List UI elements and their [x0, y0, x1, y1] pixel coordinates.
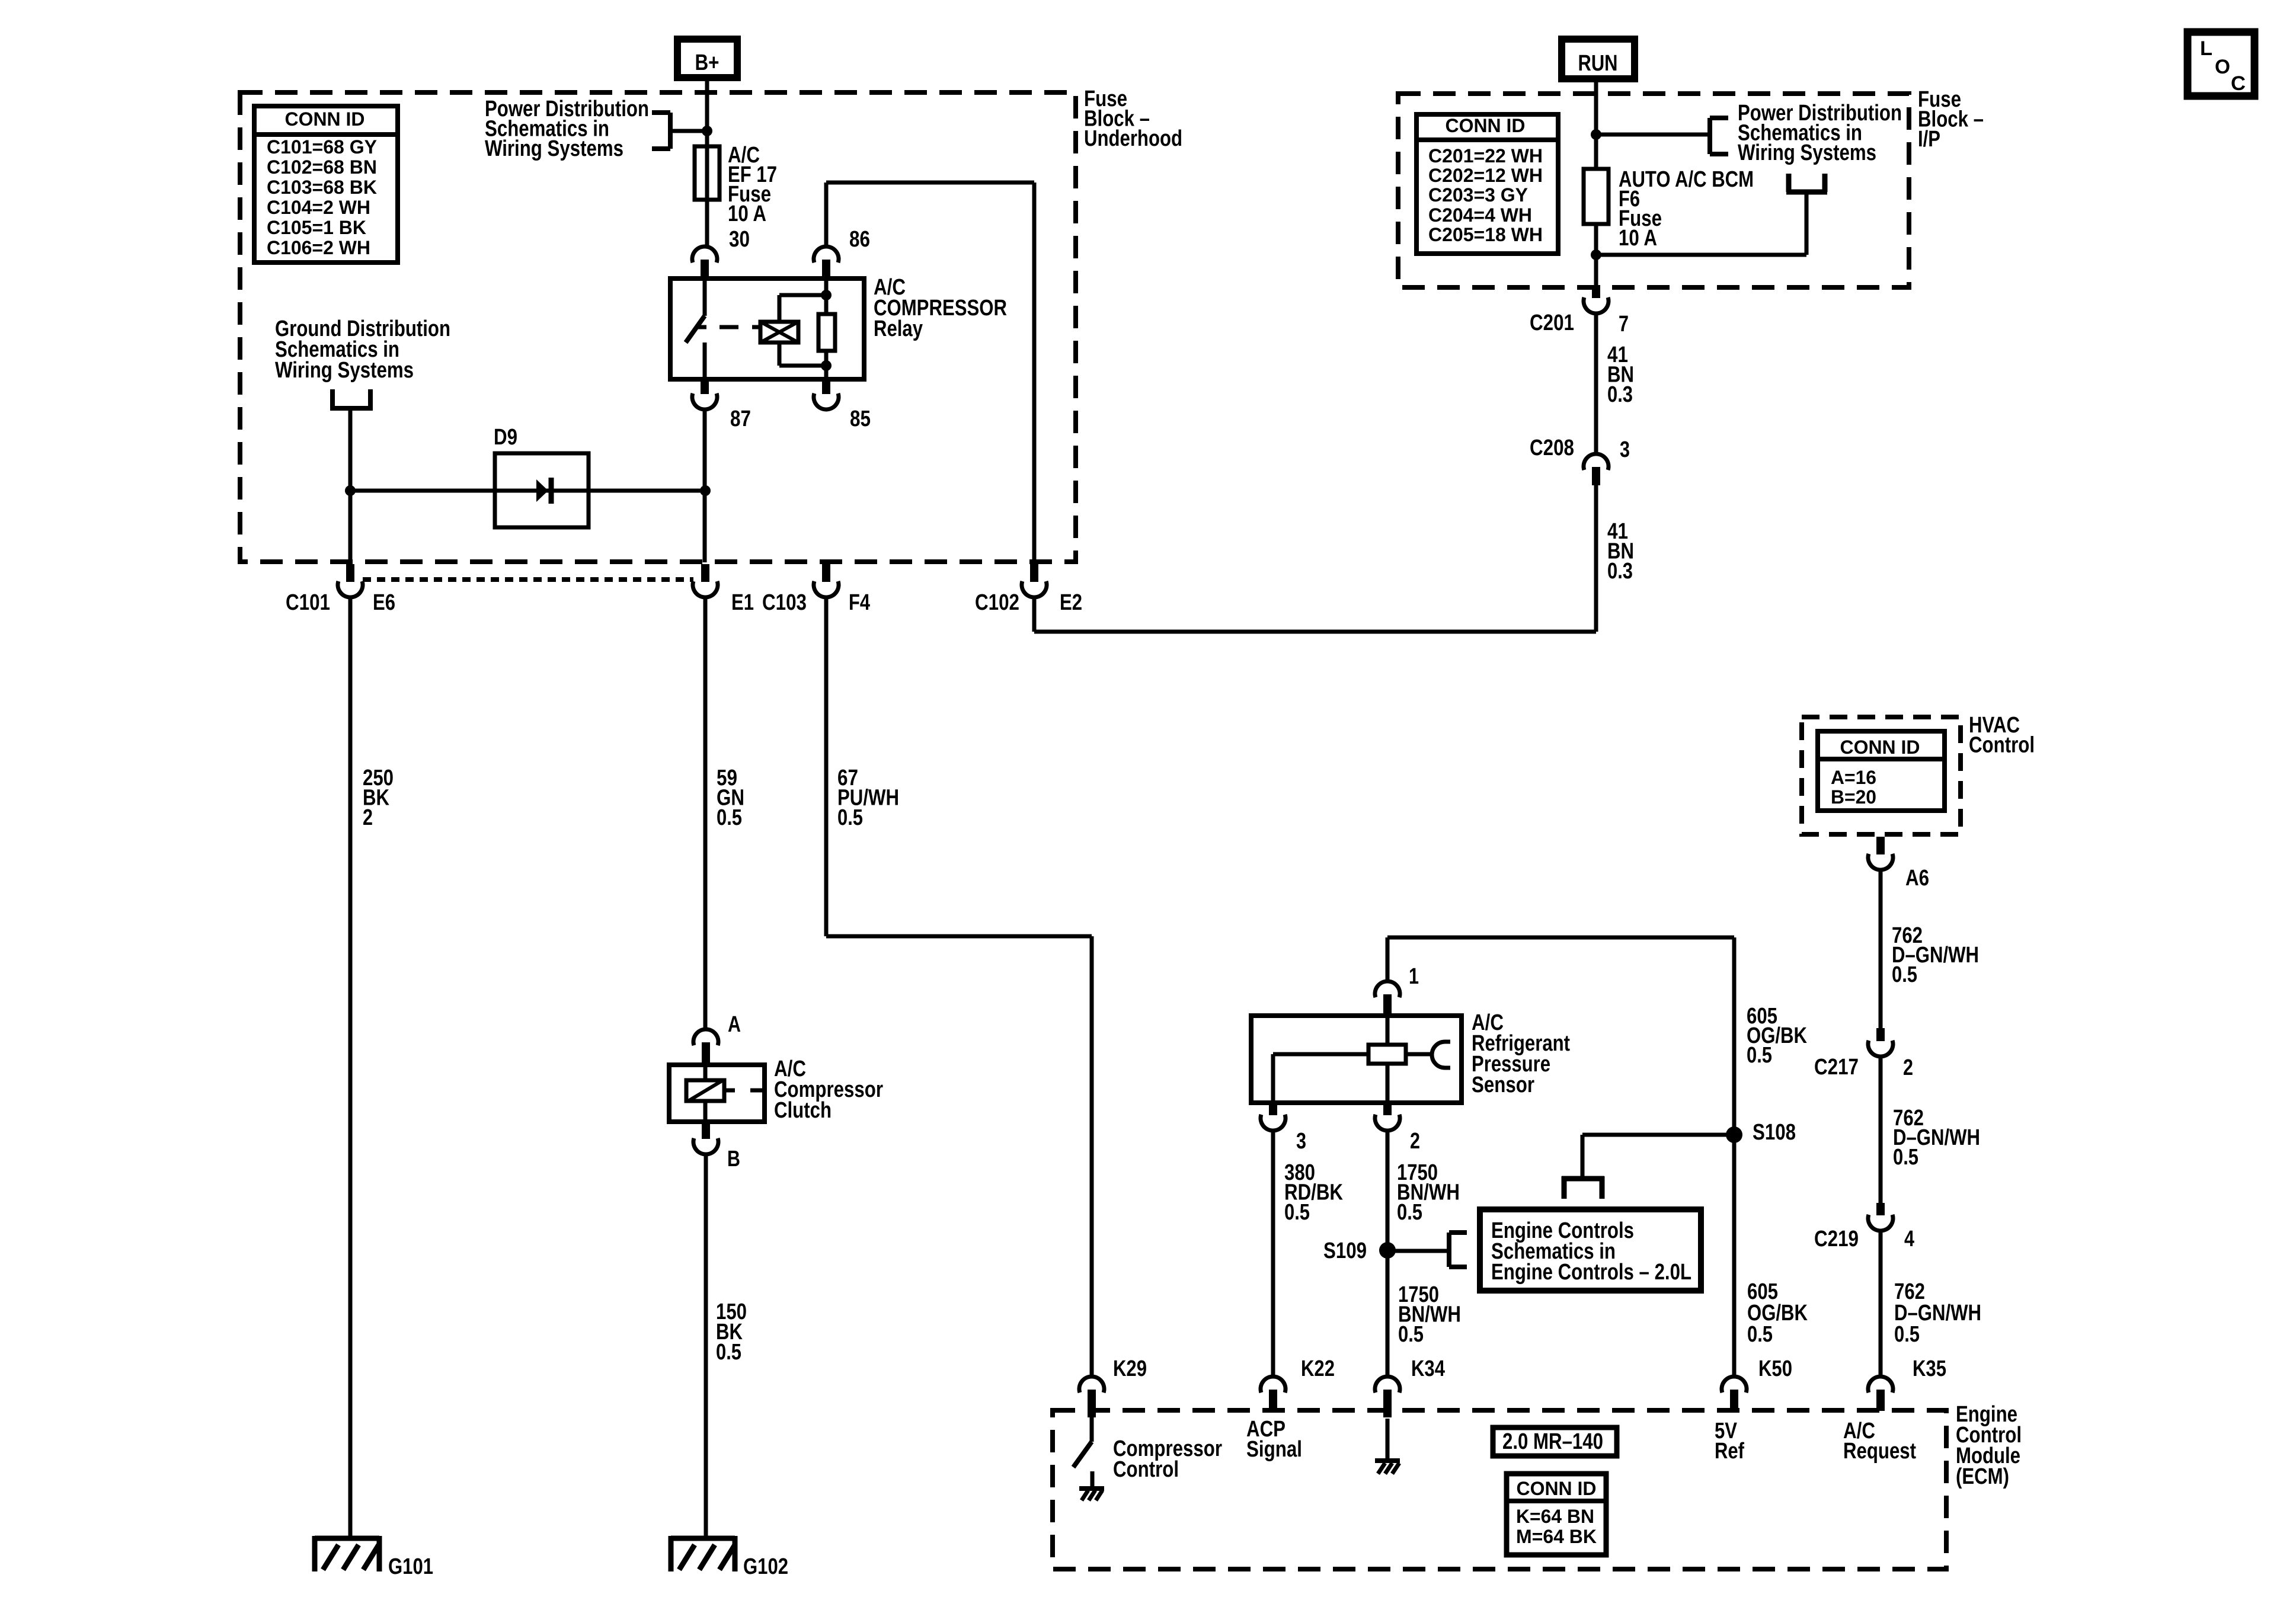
svg-text:CONN ID: CONN ID — [1517, 1478, 1597, 1499]
wire relay 86 up and over to E2 — [824, 183, 829, 247]
dashed box Fuse Block - Underhood — [240, 92, 1076, 562]
wire pin2 down to K34 — [1386, 1131, 1390, 1376]
junction dot at B+ wire — [702, 126, 712, 136]
pin 2 connector — [1375, 1115, 1400, 1131]
svg-text:0.5: 0.5 — [1284, 1200, 1310, 1225]
junction S108 — [1726, 1126, 1742, 1143]
svg-text:10 A: 10 A — [1619, 226, 1657, 251]
svg-text:D9: D9 — [494, 425, 517, 450]
svg-text:2: 2 — [1903, 1055, 1913, 1080]
engine controls link bracket (upper) — [1562, 1176, 1604, 1182]
S108 branch to link bracket — [1582, 1133, 1734, 1137]
CONN ID table C101-C106 — [254, 106, 398, 263]
clutch box — [669, 1065, 765, 1122]
svg-text:O: O — [2215, 56, 2230, 78]
svg-text:C101: C101 — [286, 590, 330, 615]
svg-text:C105=1 BK: C105=1 BK — [267, 217, 366, 238]
svg-text:(ECM): (ECM) — [1956, 1464, 2009, 1489]
connector A6 — [1868, 854, 1893, 870]
connector K29 — [1079, 1377, 1104, 1393]
wire C201 to C208 — [1594, 313, 1598, 453]
pin 85 connector — [814, 393, 839, 409]
Engine Controls Schematics box — [1480, 1209, 1701, 1291]
svg-text:C103=68 BK: C103=68 BK — [267, 177, 377, 198]
svg-text:C102=68 BN: C102=68 BN — [267, 156, 377, 178]
connector C219 pin 4 — [1868, 1215, 1893, 1231]
wire A6 down to C217 — [1879, 870, 1883, 1029]
svg-text:K=64 BN: K=64 BN — [1516, 1506, 1594, 1527]
svg-text:Underhood: Underhood — [1084, 126, 1182, 151]
svg-text:K35: K35 — [1913, 1356, 1946, 1381]
wire fuse bottom branch — [1596, 253, 1806, 257]
svg-text:S109: S109 — [1323, 1238, 1367, 1263]
svg-text:CONN ID: CONN ID — [285, 108, 365, 130]
svg-text:87: 87 — [730, 406, 751, 431]
relay switch pin30-87 — [703, 281, 707, 316]
svg-text:K22: K22 — [1301, 1356, 1335, 1381]
CONN ID table C201-C205 — [1416, 114, 1558, 254]
svg-text:C217: C217 — [1814, 1055, 1859, 1080]
dashed box Fuse Block - I/P — [1398, 94, 1909, 287]
connector F4 — [814, 581, 839, 597]
svg-text:4: 4 — [1904, 1227, 1914, 1251]
svg-text:C104=2 WH: C104=2 WH — [267, 197, 370, 218]
dashed box Engine Control Module — [1053, 1410, 1946, 1569]
wire C217 to C219 — [1879, 1057, 1883, 1203]
ECM switch ground — [1079, 1486, 1104, 1491]
svg-text:0.5: 0.5 — [1747, 1322, 1773, 1347]
svg-text:Control: Control — [1113, 1457, 1179, 1482]
svg-text:Ref: Ref — [1715, 1439, 1744, 1464]
wire E6 down to G101 — [348, 597, 353, 1538]
svg-text:3: 3 — [1620, 437, 1630, 462]
svg-text:K34: K34 — [1411, 1356, 1445, 1381]
svg-text:10 A: 10 A — [728, 201, 766, 226]
svg-text:0.5: 0.5 — [1397, 1200, 1422, 1225]
relay actuator dashed link — [720, 325, 738, 329]
connector K35 — [1868, 1377, 1893, 1393]
junction dot fuse bottom — [1591, 249, 1601, 260]
svg-text:C208: C208 — [1530, 436, 1574, 460]
svg-text:3: 3 — [1296, 1129, 1306, 1154]
LOC legend box — [2188, 32, 2255, 96]
svg-text:Wiring Systems: Wiring Systems — [275, 358, 414, 383]
wire sensor pin1 top run — [1387, 936, 1734, 940]
svg-text:0.5: 0.5 — [1892, 962, 1917, 987]
svg-text:CONN ID: CONN ID — [1446, 115, 1526, 136]
svg-text:7: 7 — [1619, 312, 1629, 337]
wire 87 down to E1 — [703, 409, 707, 562]
svg-text:Control: Control — [1969, 733, 2035, 758]
svg-text:C205=18 WH: C205=18 WH — [1428, 224, 1543, 245]
svg-text:CONN ID: CONN ID — [1840, 737, 1920, 758]
power symbol B+ — [677, 39, 737, 78]
junction dot right of diode — [700, 485, 711, 496]
svg-text:C: C — [2231, 72, 2246, 95]
svg-text:30: 30 — [729, 227, 750, 252]
connector E6 C101 — [338, 581, 363, 597]
diode symbol — [536, 479, 548, 502]
clutch solenoid — [686, 1080, 724, 1101]
junction dot RUN wire top — [1591, 129, 1601, 140]
power distribution link cup (I/P) — [1786, 174, 1792, 192]
svg-text:Signal: Signal — [1246, 1437, 1302, 1462]
bracket to Engine Controls box — [1447, 1233, 1451, 1267]
svg-text:K50: K50 — [1758, 1356, 1792, 1381]
svg-text:B=20: B=20 — [1831, 786, 1876, 808]
svg-text:Clutch: Clutch — [774, 1098, 832, 1123]
svg-text:0.5: 0.5 — [1747, 1043, 1772, 1068]
svg-text:I/P: I/P — [1918, 127, 1940, 152]
svg-text:B: B — [727, 1147, 740, 1172]
bracket to Power Distribution label (left) — [652, 110, 670, 115]
wire C219 down to K35 — [1879, 1231, 1883, 1376]
wire F4 down and right to K29 — [824, 597, 829, 936]
svg-text:E2: E2 — [1060, 590, 1082, 615]
connector E2 C102 — [1022, 581, 1047, 597]
svg-text:Engine Controls – 2.0L: Engine Controls – 2.0L — [1491, 1260, 1691, 1285]
svg-text:0.5: 0.5 — [1893, 1145, 1918, 1170]
wire E1 down to clutch — [703, 597, 708, 1029]
svg-text:Relay: Relay — [874, 316, 923, 341]
svg-text:Wiring Systems: Wiring Systems — [1738, 140, 1876, 165]
relay coil — [760, 322, 798, 343]
CONN ID table ECM — [1507, 1474, 1606, 1555]
svg-text:0.3: 0.3 — [1607, 559, 1633, 584]
diode D9 box — [495, 453, 589, 527]
pin A connector — [693, 1029, 718, 1045]
svg-text:S108: S108 — [1753, 1120, 1796, 1145]
dashed box HVAC Control — [1802, 717, 1961, 834]
svg-text:L: L — [2200, 37, 2212, 60]
2.0 MR-140 box — [1493, 1427, 1617, 1456]
svg-text:2.0 MR–140: 2.0 MR–140 — [1502, 1429, 1603, 1454]
svg-text:Wiring Systems: Wiring Systems — [485, 136, 623, 161]
svg-text:E1: E1 — [731, 590, 754, 615]
connector K34 — [1375, 1377, 1400, 1393]
svg-text:C202=12 WH: C202=12 WH — [1428, 165, 1543, 186]
relay coil junction dots — [821, 290, 832, 300]
wire pin3 down to K22 — [1271, 1131, 1275, 1376]
svg-text:2: 2 — [1410, 1129, 1420, 1154]
wire B down to G102 — [704, 1154, 708, 1538]
K34 ground wire — [1386, 1419, 1390, 1458]
ground G102 — [671, 1536, 735, 1541]
wire fuse to relay pin 30 — [705, 200, 709, 247]
svg-text:0.3: 0.3 — [1607, 382, 1633, 407]
svg-text:A: A — [728, 1012, 741, 1037]
svg-text:A=16: A=16 — [1831, 767, 1876, 788]
svg-text:G102: G102 — [743, 1554, 788, 1579]
svg-text:G101: G101 — [388, 1554, 433, 1579]
connector K22 — [1261, 1377, 1285, 1393]
svg-text:C219: C219 — [1814, 1227, 1859, 1251]
pin 1 connector — [1375, 981, 1400, 997]
wire through diode — [350, 489, 705, 493]
pin 87 connector — [692, 393, 717, 409]
sensor internal element — [1368, 1045, 1406, 1064]
svg-text:C201=22 WH: C201=22 WH — [1428, 145, 1543, 167]
svg-text:85: 85 — [850, 406, 871, 431]
fuse F6 — [1594, 135, 1598, 169]
connector K50 — [1722, 1377, 1747, 1393]
power symbol RUN — [1562, 39, 1635, 79]
svg-text:F4: F4 — [849, 590, 870, 615]
bracket to Power Distribution label (right) — [1707, 118, 1712, 154]
svg-text:C103: C103 — [762, 590, 807, 615]
S109 branch to bracket — [1387, 1249, 1449, 1253]
svg-text:M=64 BK: M=64 BK — [1516, 1526, 1597, 1547]
relay A/C COMPRESSOR Relay box — [670, 279, 864, 379]
junction S109 — [1379, 1242, 1396, 1259]
wire C208 down to E2 line — [1594, 485, 1598, 632]
svg-text:C204=4 WH: C204=4 WH — [1428, 204, 1532, 226]
connector C217 pin 2 — [1868, 1041, 1893, 1057]
svg-text:C201: C201 — [1530, 311, 1574, 335]
svg-text:0.5: 0.5 — [1398, 1322, 1424, 1347]
pin 30 connector — [692, 247, 717, 263]
pin 3 connector — [1261, 1115, 1285, 1131]
pin B connector — [693, 1138, 718, 1154]
ground distribution link bracket — [330, 389, 335, 406]
svg-text:Request: Request — [1843, 1439, 1916, 1464]
ECM switch Compressor Control — [1090, 1416, 1094, 1442]
svg-text:E6: E6 — [373, 590, 395, 615]
clutch dashed link — [724, 1089, 735, 1093]
wire 605 down from S108 to K50 — [1732, 937, 1737, 1376]
junction dot left of diode — [345, 485, 356, 496]
wire RUN down — [1594, 82, 1598, 135]
svg-text:0.5: 0.5 — [717, 805, 742, 830]
svg-text:C203=3 GY: C203=3 GY — [1428, 184, 1528, 206]
svg-text:0.5: 0.5 — [837, 805, 863, 830]
svg-text:C106=2 WH: C106=2 WH — [267, 237, 370, 258]
wire B+ to fuse — [705, 81, 709, 146]
svg-text:1: 1 — [1409, 964, 1419, 989]
CONN ID table HVAC — [1818, 731, 1945, 811]
svg-text:0.5: 0.5 — [716, 1340, 741, 1365]
relay coil loop wires — [778, 295, 782, 322]
connector C201 pin 7 — [1584, 297, 1609, 313]
svg-text:2: 2 — [363, 805, 373, 830]
svg-text:Sensor: Sensor — [1472, 1073, 1534, 1097]
svg-text:B+: B+ — [695, 50, 720, 75]
fuse EF 17 — [695, 146, 720, 200]
ground G101 — [315, 1536, 379, 1541]
relay resistor — [824, 281, 829, 314]
pin 86 connector — [814, 247, 839, 263]
svg-text:RUN: RUN — [1578, 51, 1618, 76]
svg-text:K29: K29 — [1113, 1356, 1147, 1381]
svg-text:86: 86 — [849, 227, 870, 252]
svg-text:A6: A6 — [1905, 866, 1929, 891]
svg-text:0.5: 0.5 — [1894, 1322, 1920, 1347]
svg-text:C101=68 GY: C101=68 GY — [267, 136, 377, 158]
connector E1 C103 (left) — [693, 581, 718, 597]
svg-text:C102: C102 — [975, 590, 1019, 615]
A/C Refrigerant Pressure Sensor box — [1251, 1016, 1462, 1103]
dotted line E6 to E1 — [363, 577, 693, 582]
